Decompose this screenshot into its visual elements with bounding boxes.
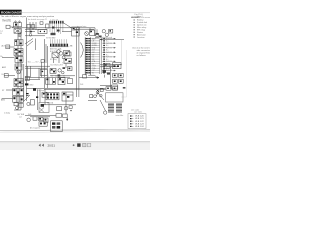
connector C3 <box>109 29 113 33</box>
connector C4 <box>65 52 71 56</box>
wire arrow right <box>100 39 124 41</box>
svg-text:GND: GND <box>29 84 34 86</box>
connector strip bar <box>50 44 69 47</box>
component K6 <box>14 103 23 108</box>
mid text row <box>51 63 72 67</box>
wire bottom bus <box>25 115 56 116</box>
relay R9 <box>39 117 48 122</box>
caption starter relay <box>50 59 57 61</box>
caption fuse names <box>47 102 54 105</box>
svg-text:AM2: AM2 <box>2 66 6 69</box>
caption lower mid <box>28 114 32 116</box>
wire y31 <box>25 31 35 33</box>
sensor S2 <box>88 95 97 101</box>
svg-text:IGN fuse: IGN fuse <box>38 90 45 92</box>
ECU pin row OX <box>86 70 116 72</box>
small box top mid <box>40 22 43 25</box>
harness pre-bar drops <box>50 39 66 44</box>
svg-text:noise filter: noise filter <box>116 114 124 117</box>
fuse cluster F1 <box>50 68 56 73</box>
connector C9 <box>33 117 37 120</box>
wire mesh horizontals <box>25 66 50 79</box>
fuse blobs <box>51 27 60 36</box>
faint frame <box>121 50 127 97</box>
wire drops right <box>74 28 97 36</box>
wire verticals lower <box>38 89 40 110</box>
label ACC <box>1 98 5 101</box>
dark box mid <box>68 67 73 71</box>
sensor S1 <box>4 74 8 78</box>
junction box J1 <box>38 29 47 33</box>
svg-text:Junction: Junction <box>137 36 144 39</box>
wire stub IG <box>4 75 15 77</box>
engine code label 7M-GE <box>2 19 11 22</box>
left edge marks <box>0 31 3 35</box>
fuse grid FG2 <box>46 93 59 100</box>
boxes above coil <box>106 87 118 91</box>
ECU pin row +B <box>86 40 109 42</box>
side note text <box>132 47 156 57</box>
ECU pin row G1 <box>86 56 116 58</box>
switch box SW1 <box>52 53 58 58</box>
diode box D1 <box>40 69 47 75</box>
svg-text:AM1: AM1 <box>1 98 5 101</box>
toolbar prev arrows <box>39 144 44 147</box>
node circle N2 <box>17 70 21 74</box>
terminal dashes <box>26 93 29 96</box>
marks right of motor <box>69 106 72 112</box>
node circle N4 <box>29 34 32 37</box>
ECU pin row G2 <box>86 58 109 60</box>
node circle N5 <box>85 32 89 36</box>
ECU connector rails <box>85 37 101 75</box>
wire cluster left vertical <box>44 89 46 105</box>
sensor box SB1 <box>42 92 47 97</box>
caption check wire <box>80 84 84 86</box>
wire injector feed <box>100 67 112 89</box>
caption bottom <box>30 126 40 129</box>
ground tag G1 <box>25 83 34 86</box>
relay block K2 <box>15 40 23 46</box>
wire bus into coil box <box>0 0 1 1</box>
small parts cluster <box>95 34 99 38</box>
bus double line <box>44 88 106 89</box>
wire drops center <box>54 55 66 68</box>
relay R8 <box>62 92 73 101</box>
relay R10 <box>39 122 47 126</box>
svg-text:E1: E1 <box>92 73 94 75</box>
note text <box>1 15 55 21</box>
battery B1 <box>14 21 22 27</box>
node circle N7 <box>57 50 65 59</box>
node circle N9 <box>104 111 107 114</box>
wire mid connects <box>50 76 75 77</box>
ECU pin row THA <box>86 67 109 70</box>
faint vertical right <box>121 40 123 64</box>
legend item 3 Ignition sw <box>134 24 147 27</box>
toolbar dot <box>73 144 75 146</box>
node circle N6 <box>102 30 108 37</box>
connector row ticks <box>49 21 63 24</box>
node circles mid <box>58 69 64 74</box>
title block SYSTEM WIRING <box>0 10 22 15</box>
harness arc <box>81 43 84 58</box>
wire left tail <box>14 96 21 110</box>
caption coil <box>116 114 124 117</box>
ECU pin row THW <box>86 65 116 67</box>
igniter box with X <box>39 102 49 112</box>
legend item 6 Starter <box>134 31 144 34</box>
injector bank <box>112 73 124 89</box>
figure number label <box>135 14 144 18</box>
legend item 7 Alternator <box>134 33 146 36</box>
viewer toolbar <box>0 141 150 150</box>
legend item 2 Fusible link <box>134 22 147 24</box>
marks mid <box>58 67 66 76</box>
svg-text:7M-GTE: 7M-GTE <box>2 19 11 22</box>
legend header <box>131 16 151 19</box>
wire stub ST <box>6 89 13 91</box>
wire bus top <box>12 28 50 30</box>
wire mesh verticals <box>27 62 41 80</box>
wire stub BAT <box>2 57 14 59</box>
list row 1 <box>130 115 144 117</box>
svg-text:The side of Electric engine ro: The side of Electric engine room wiring … <box>1 15 55 18</box>
node circle N11 <box>27 102 30 105</box>
relay R6 <box>64 58 71 63</box>
connector C10 <box>56 114 67 118</box>
wire diagonals left of bar <box>25 39 36 51</box>
tag dark TD1 <box>33 88 44 91</box>
ECU pin row IGSW <box>86 43 116 45</box>
marks right of coil top <box>123 87 126 89</box>
dark blobs pre-ladder <box>96 33 102 37</box>
list row 5 <box>130 126 144 128</box>
ladder bottom blobs <box>103 70 110 74</box>
wire bus extension <box>27 88 45 101</box>
harness drop lines <box>50 24 63 34</box>
connector C8 <box>57 107 62 111</box>
component K1 <box>14 29 21 34</box>
node circles right <box>96 91 102 97</box>
relay R7 <box>58 78 65 85</box>
fuse grid FG1 <box>46 78 56 85</box>
ECU pin row NE <box>86 54 109 56</box>
svg-text:to body: to body <box>4 111 10 114</box>
wire stub ACC <box>2 97 13 99</box>
wire verticals mid <box>27 18 37 89</box>
component K4 <box>15 64 22 70</box>
ECU pin row BATT <box>86 37 116 40</box>
wire mid h <box>25 35 45 37</box>
svg-text:as follows: as follows <box>137 55 146 57</box>
svg-text:— W-L —— B-Y —: — W-L —— B-Y — <box>26 61 42 63</box>
legend item 5 EFI relay <box>134 29 145 31</box>
fusible link FL <box>6 25 14 28</box>
wire right pair <box>100 65 122 67</box>
center small text rows <box>50 48 62 53</box>
wire ticks mid <box>48 75 64 77</box>
label junction block <box>69 45 73 47</box>
caption distributor <box>100 36 112 39</box>
connector row caption <box>50 19 58 21</box>
svg-text:to cowl wire: to cowl wire <box>77 25 86 28</box>
tag boxes <box>41 60 44 63</box>
wire long verticals <box>45 39 48 89</box>
connector C0 <box>46 24 49 28</box>
list row 4 <box>130 123 144 125</box>
ignition coil box <box>106 93 123 102</box>
ECU pin row M-REL <box>86 45 109 47</box>
component K3 <box>15 56 23 62</box>
toolbar button dark <box>77 143 80 146</box>
ECU pin row E1 <box>86 72 109 74</box>
svg-text:20/21: 20/21 <box>48 144 56 148</box>
ECU pin row VS <box>86 63 109 65</box>
list row 3 <box>130 121 144 123</box>
ECU pin row VTA <box>86 60 116 63</box>
x-mark cluster <box>96 89 103 92</box>
connector code list box <box>128 114 146 129</box>
label AM2 <box>2 66 6 69</box>
wire diagonals <box>96 90 105 111</box>
svg-text:A/C magnetic: A/C magnetic <box>30 126 40 129</box>
wire ladder drop <box>104 75 106 78</box>
wire ECU out <box>79 77 99 79</box>
node circle N10 <box>27 118 31 122</box>
blob top mid <box>30 31 32 33</box>
center dashed label row <box>26 61 42 63</box>
ECU bracket <box>88 75 97 77</box>
toolbar button light <box>87 143 90 146</box>
svg-text:Y-G B-W 14: Y-G B-W 14 <box>62 63 71 65</box>
starter motor M <box>64 101 68 114</box>
wire diagonal lower left <box>24 95 30 101</box>
svg-text:B-O W-B L-R B: B-O W-B L-R B <box>51 65 64 67</box>
page edge shadow <box>0 130 150 132</box>
svg-text:C 12 C 13: C 12 C 13 <box>50 19 58 21</box>
box with diagonal BD1 <box>64 51 70 56</box>
relay bank RB1 <box>13 88 24 95</box>
wire chain right edge <box>23 64 25 102</box>
toolbar page counter <box>48 144 56 148</box>
alternator A1 <box>6 45 10 49</box>
label BAT <box>1 56 4 58</box>
bottom tiny tags <box>18 114 25 118</box>
wire main left spine <box>18 23 21 110</box>
connector block C1 <box>27 24 35 28</box>
tag dark TD2 <box>36 96 38 98</box>
node circle N1 <box>18 34 21 37</box>
legend item 1 Battery <box>134 19 144 22</box>
connector C7 <box>104 63 110 68</box>
list row 2 <box>130 118 144 120</box>
label IG <box>2 74 5 76</box>
wire lower h <box>44 104 76 106</box>
coil terminal blocks <box>108 104 122 113</box>
connector C12 <box>68 79 73 84</box>
caption under fuses <box>46 37 55 40</box>
legend item 8 Junction <box>134 36 145 39</box>
label lower left <box>4 111 10 114</box>
svg-text:W-B 1.24: W-B 1.24 <box>135 126 144 128</box>
ECU pin row STA <box>86 46 116 49</box>
wire bus right <box>50 27 95 29</box>
relay bank RB2 <box>13 96 24 102</box>
relay box R5 <box>62 23 79 37</box>
resistor block RS1 <box>113 63 121 69</box>
ECU pin row IGF <box>86 52 116 54</box>
svg-text:ROOM DIAGR: ROOM DIAGR <box>1 11 22 15</box>
page rule <box>22 12 151 14</box>
hatched box H1 <box>14 48 23 55</box>
node circle N3 <box>16 107 19 110</box>
svg-text:for details see page 21: for details see page 21 <box>28 18 47 21</box>
toolbar button mid <box>83 143 86 146</box>
caption to cowl <box>77 25 86 28</box>
connector C2 <box>90 30 95 36</box>
connector C6 <box>83 75 87 78</box>
label ST <box>2 90 5 92</box>
ECU pin row IGT <box>86 49 109 51</box>
list caption <box>131 108 142 113</box>
label ALT <box>2 45 6 48</box>
connector C5 <box>25 76 29 80</box>
wire pair to ECU <box>76 28 79 97</box>
ignition box K5 <box>14 79 23 87</box>
connector C11 <box>30 100 34 105</box>
wire stub ALT <box>6 46 15 48</box>
legend item 4 Main relay <box>134 27 147 29</box>
wire bottom drop <box>66 117 68 120</box>
svg-text:IG SW AM2: IG SW AM2 <box>46 37 55 40</box>
node circle N8 <box>102 70 106 74</box>
svg-text:size table: size table <box>134 111 142 114</box>
svg-text:EFI 15A: EFI 15A <box>47 102 54 105</box>
condenser box <box>51 121 63 132</box>
